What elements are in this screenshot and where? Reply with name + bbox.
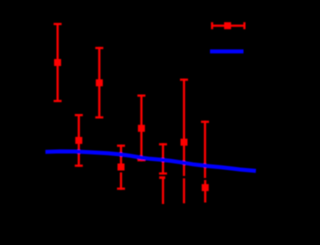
fitted model curve bbox=[45, 151, 256, 171]
data point 1 error bar bbox=[54, 23, 62, 102]
data point 7 lower bar segment (clipped at axis) bbox=[183, 178, 185, 203]
data point 5 error bar bbox=[137, 95, 145, 162]
data point 8 lower marker bbox=[202, 184, 209, 191]
data point 7 marker bbox=[181, 139, 188, 146]
data point 4 error bar lower segment bbox=[117, 172, 125, 189]
data point 2 error bar bbox=[75, 114, 83, 167]
legend model curve sample bbox=[210, 49, 244, 53]
data point 8 upper error bar bbox=[201, 121, 209, 178]
legend data sample bbox=[211, 22, 246, 29]
data point 4 error bar upper segment bbox=[117, 145, 125, 171]
data point 5 marker bbox=[138, 125, 145, 132]
data point 2 marker bbox=[75, 137, 82, 144]
data point 3 error bar bbox=[95, 47, 103, 119]
data point 3 marker bbox=[96, 79, 103, 86]
data point 4 marker bbox=[118, 164, 125, 171]
data point 7 error bar bbox=[180, 79, 188, 176]
data point 8 lower error bar (clipped at axis) bbox=[204, 180, 206, 203]
data point 6 upper error bar bbox=[159, 143, 167, 174]
data point 1 marker bbox=[54, 59, 61, 66]
data point 6 lower error bar (clipped at axis) bbox=[159, 176, 165, 204]
